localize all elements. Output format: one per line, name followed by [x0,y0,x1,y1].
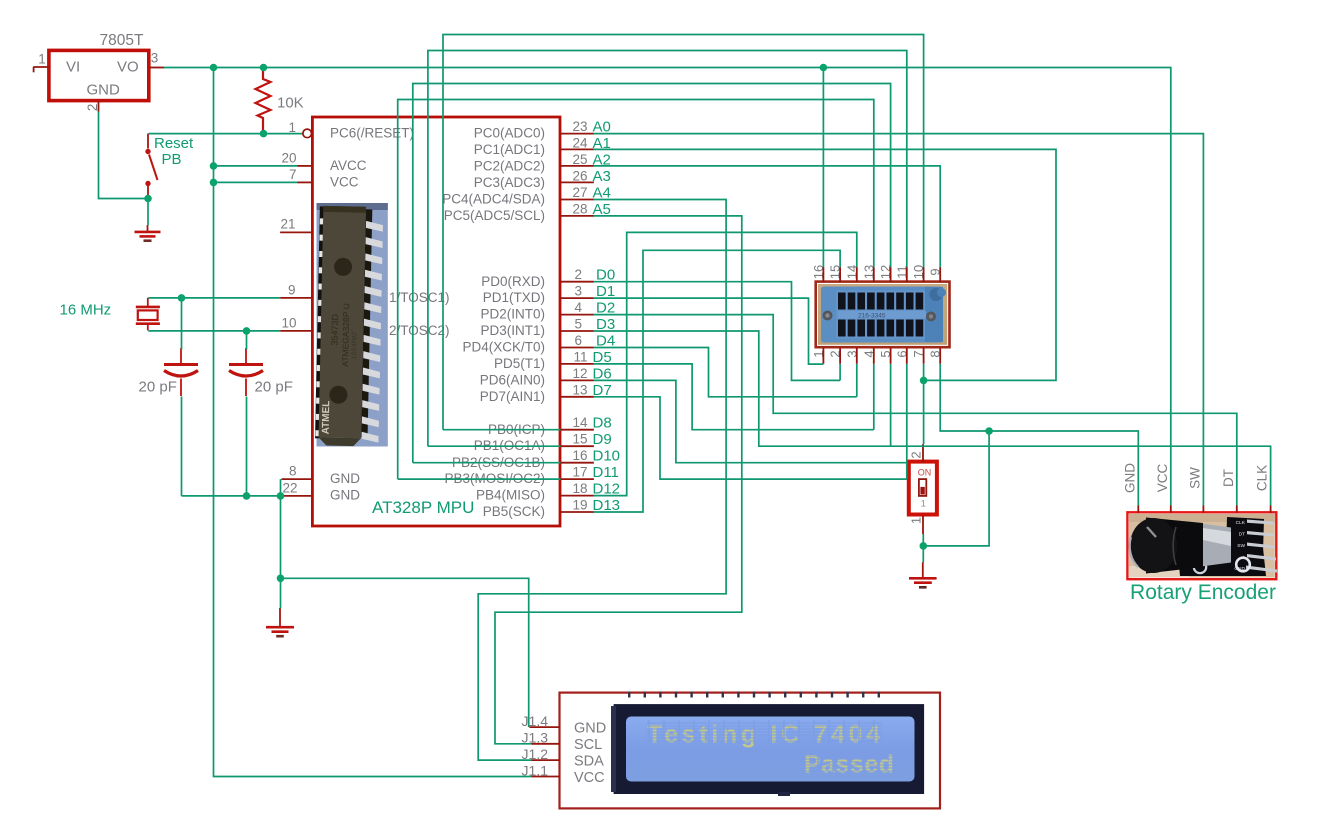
ZIF test socket photo (IC under test) [816,282,950,348]
svg-text:35473D: 35473D [329,313,340,345]
svg-text:CLK: CLK [1255,465,1270,491]
wire 7805 GND to reset button [99,112,149,199]
svg-text:AVCC: AVCC [330,158,367,173]
svg-text:10K: 10K [277,95,304,112]
svg-text:GND: GND [330,488,360,503]
wire A1 row [594,149,1056,380]
capacitor C1 20pF [164,348,198,396]
svg-text:PC1(ADC1): PC1(ADC1) [474,142,545,157]
svg-text:VCC: VCC [1155,464,1170,493]
svg-text:A3: A3 [593,168,611,185]
svg-text:D11: D11 [593,464,619,481]
svg-text:23: 23 [572,119,587,134]
wire ZIF pin5 lead [890,364,892,446]
wire VCC rail (7805 VO to encoder VCC) [164,68,1171,506]
svg-text:PD7(AIN1): PD7(AIN1) [480,389,545,404]
svg-text:PD6(AIN0): PD6(AIN0) [480,373,545,388]
svg-text:26: 26 [572,169,587,184]
wire PB0/D8 row inside MPU [443,429,561,431]
svg-text:18: 18 [572,481,587,496]
svg-text:VCC: VCC [574,770,605,786]
capacitor C2 20pF [229,348,263,396]
wire MPU pin22 GND row [182,495,281,497]
svg-text:6: 6 [574,333,582,348]
svg-text:DT: DT [1221,469,1236,487]
wire D13 to ZIF pin15 [594,250,840,512]
svg-text:SCL: SCL [574,737,602,753]
svg-text:PC5(ADC5/SCL): PC5(ADC5/SCL) [444,208,545,223]
ground GND3 (DIP switch) [909,562,937,587]
svg-text:1: 1 [921,499,926,509]
svg-text:2: 2 [574,267,582,282]
junction GND net / pin8 elbow [277,492,285,500]
junction XTAL1 / C1 [178,294,186,302]
wire VCC pin7 [214,181,298,183]
svg-text:15: 15 [572,432,587,447]
wire D6 to ZIF pin6 [594,380,907,462]
svg-text:DT: DT [1239,532,1245,538]
svg-text:14: 14 [572,415,588,430]
MPU chip photo U1 (ATmega328P DIP package) [315,203,388,447]
svg-text:1: 1 [909,517,924,524]
wire GND net down to GND2 [280,496,282,609]
wire D2 to encoder DT [594,315,1237,506]
svg-text:3: 3 [151,51,159,66]
svg-text:9: 9 [288,283,296,298]
svg-text:GND: GND [87,82,121,99]
wire bus PB1 to ZIF pin11 [428,51,907,447]
svg-text:20 pF: 20 pF [139,379,177,396]
wire A5 row to LCD SCL [495,216,742,744]
wire MPU pin8 elbow [280,479,282,496]
svg-text:PC4(ADC4/SDA): PC4(ADC4/SDA) [442,192,545,207]
svg-text:27: 27 [572,185,587,200]
svg-text:21: 21 [280,217,295,232]
svg-text:20 pF: 20 pF [255,379,293,396]
svg-text:VO: VO [117,59,139,76]
wire GND branch to DIP pin1 [923,431,989,546]
ZIF socket top pin stubs [823,267,940,282]
MPU U1 AT328P box [312,117,560,526]
svg-text:PC6(/RESET): PC6(/RESET) [330,126,414,141]
net labels D0-D13 [593,267,621,514]
svg-text:Rotary Encoder: Rotary Encoder [1130,581,1276,604]
svg-text:PD1(TXD): PD1(TXD) [483,290,545,305]
svg-text:PD2(INT0): PD2(INT0) [480,307,545,322]
LCD 16x2 display photo [560,692,941,809]
svg-text:D10: D10 [593,448,621,465]
wire D12 to ZIF pin14 [594,232,857,495]
wire bus PB3 to ZIF pin13 [398,100,874,480]
MPU internal right labels PC0-PC5 [442,126,545,519]
DIP switch pin numbers 2 1 [909,451,924,524]
LCD pin labels GND SCL SDA VCC [574,721,606,787]
rotary encoder pin labels GND VCC SW DT CLK [1122,463,1269,493]
junction VCC rail / R1 top [260,64,268,72]
wire AVCC pin20 [214,165,298,167]
wire ZIF pin1 lead [822,363,824,365]
wire D4 to ZIF pin3 [594,348,857,397]
svg-text:D8: D8 [593,415,612,432]
svg-text:20: 20 [281,151,296,166]
svg-text:17: 17 [572,465,587,480]
svg-text:2: 2 [909,451,924,458]
svg-text:2: 2 [85,104,100,112]
junction GND net split to LCD [277,575,285,583]
junction VCC pin7 / x213 [210,179,218,187]
svg-text:Reset: Reset [154,135,194,152]
svg-text:19: 19 [572,498,587,513]
svg-text:8: 8 [289,464,297,479]
svg-text:D9: D9 [593,431,612,448]
MPU left pin numbers [280,120,297,496]
svg-text:GND: GND [330,471,360,486]
wire VCC vertical x213 to LCD J1.1 [214,68,532,777]
svg-text:22: 22 [282,481,297,496]
junction AVCC / x213 [210,162,218,170]
svg-text:PB4(MISO): PB4(MISO) [476,488,545,503]
DIP switch S2 box [909,462,937,515]
wire D3 to ZIF pin5 and encoder CLK [594,331,1271,506]
wire GND net to LCD J1.4 [281,578,529,727]
crystal X1 16MHz [136,298,160,331]
svg-text:28: 28 [572,201,587,216]
junction GND net / C2 bottom [243,492,251,500]
wire C2 top lead [246,331,248,350]
wire C1 top lead [181,298,183,350]
wire RESET net (switch to MPU pin1 with 10K tap) [149,133,304,135]
wire ZIF pin8 GND line to encoder GND [940,364,1138,506]
wire VCC drop to ZIF pin16 [822,68,824,268]
wire A0 to encoder SW [594,134,1204,506]
svg-text:ATMEL: ATMEL [321,401,333,435]
pushbutton S1 Reset PB [145,134,157,198]
junction ZIF pin7 / A1 [920,377,928,385]
wire C2 bottom to GND net [246,397,248,496]
svg-text:PD3(INT1): PD3(INT1) [480,323,545,338]
junction XTAL2 / C2 [243,327,251,335]
ground GND2 (MPU) [266,608,294,636]
ZIF socket top pin numbers 16-9 [811,265,943,279]
wire ZIF pin6 lead [906,364,908,479]
svg-text:VCC: VCC [330,174,359,189]
wire XTAL1 pin9 [148,297,280,299]
svg-text:PB: PB [162,151,182,168]
svg-text:7: 7 [289,167,297,182]
wire XTAL2 pin10 [148,330,280,332]
svg-text:GND: GND [574,721,606,737]
wire ZIF pin4 lead [873,364,875,430]
net labels A0-A5 [593,119,611,218]
junction DIP pin1 / GND3 [920,542,928,550]
wire PB3/D11 row inside MPU [398,478,561,480]
wire D7 to ZIF pin6 lower link [594,397,907,479]
svg-text:216-3345: 216-3345 [858,313,886,320]
junction RESET net / R1 bottom [260,130,268,138]
Rotary encoder module photo [1127,512,1277,579]
wire PB2/D10 row inside MPU [413,462,561,464]
svg-text:ATMEGA328P U: ATMEGA328P U [340,303,351,367]
MPU internal left labels [330,126,450,503]
wire A4 row to LCD SDA [478,200,726,761]
svg-text:7805T: 7805T [100,32,144,49]
DIP switch pin stubs [922,444,924,534]
svg-text:12: 12 [572,366,587,381]
wire bus PB2 to ZIF pin12 [413,84,891,463]
wire A2 to ZIF pin9 [594,166,940,267]
svg-text:10: 10 [281,316,296,331]
svg-text:CLK: CLK [1236,520,1246,526]
svg-text:PD5(T1): PD5(T1) [494,356,545,371]
svg-text:11: 11 [573,349,587,364]
svg-text:AT328P MPU: AT328P MPU [372,498,474,517]
DIP switch slider [919,479,926,496]
wire C1 bottom to GND net [181,397,183,496]
svg-text:ON: ON [918,468,932,478]
svg-text:PD0(RXD): PD0(RXD) [481,274,545,289]
svg-text:4: 4 [574,300,582,315]
7805 pin numbers 1 3 2 [38,51,158,112]
wire D1 to ZIF pin1 [594,298,824,364]
MPU right pin stubs (20 rows) [561,134,594,512]
svg-text:13: 13 [572,382,587,397]
svg-text:SW: SW [1187,467,1202,489]
svg-text:VI: VI [66,59,80,76]
svg-text:PC2(ADC2): PC2(ADC2) [474,159,545,174]
svg-text:PC0(ADC0): PC0(ADC0) [474,126,545,141]
wire D0 to ZIF pin2 [594,282,840,381]
rotary encoder pin stubs [1138,506,1270,513]
junction VCC rail / x213 [210,64,218,72]
wire reset button to GND1 [147,199,149,226]
svg-text:SW: SW [1237,543,1245,549]
MPU left pin stubs [280,166,313,496]
ground GND1 (reset button) [135,225,161,241]
wire DIP pin1 to GND3 [922,534,924,563]
svg-text:5: 5 [574,317,582,332]
resistor R1 10K [256,69,271,133]
7805 pin labels VI VO GND [66,59,139,99]
LCD connector labels J1.4-J1.1 [522,713,549,778]
wire bus PB0 to ZIF pin10 [443,35,924,430]
junction VCC rail / ZIF pin16 [820,64,828,72]
svg-text:PC3(ADC3): PC3(ADC3) [474,175,545,190]
voltage regulator U2 7805T box [49,50,149,100]
ZIF socket bottom pin numbers 1-8 [811,350,943,357]
wire D5 to ZIF pin4 [594,364,874,430]
wire ZIF pin7 to DIP pin2 [923,364,925,444]
junction GND line / DIP branch [985,427,993,435]
wire ZIF pin2 lead [839,364,841,381]
svg-text:3: 3 [574,284,582,299]
svg-text:25: 25 [572,152,587,167]
svg-text:GND: GND [1122,463,1137,493]
wire ZIF pin3 lead [856,364,858,397]
LCD connector stubs J1.4-J1.1 [530,727,561,776]
svg-text:1: 1 [38,52,46,67]
MPU right pin numbers [572,119,588,512]
svg-text:16: 16 [572,448,587,463]
wire PB1/D9 row inside MPU [428,445,561,447]
svg-text:SDA: SDA [574,754,604,770]
svg-text:16 MHz: 16 MHz [60,302,112,319]
svg-text:24: 24 [572,136,588,151]
ZIF socket bottom pin stubs [823,348,940,364]
svg-text:1024PAT: 1024PAT [351,330,359,359]
svg-text:PB5(SCK): PB5(SCK) [483,504,545,519]
MPU pin1 inverted circle [303,129,312,138]
junction reset button bottom [144,195,152,203]
7805 pin stubs [33,67,164,112]
svg-text:PD4(XCK/T0): PD4(XCK/T0) [462,340,545,355]
